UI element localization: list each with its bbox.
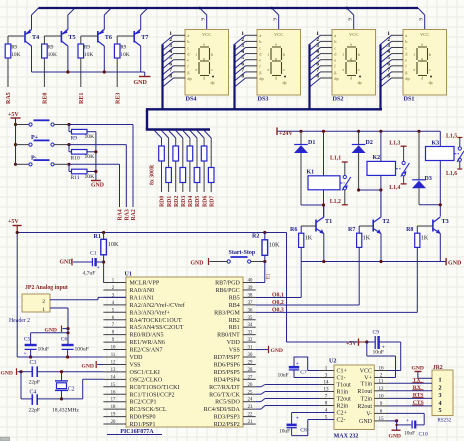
svg-text:8: 8 [325,401,328,407]
svg-text:R2in: R2in [337,404,349,410]
svg-text:18: 18 [111,405,116,410]
svg-text:dp: dp [211,80,215,85]
svg-text:18,432MHz: 18,432MHz [52,408,79,414]
svg-text:R10: R10 [71,155,81,161]
svg-text:c: c [358,67,360,72]
svg-text:39: 39 [248,286,253,291]
svg-text:3: 3 [241,43,244,49]
svg-text:L1,1: L1,1 [330,156,341,162]
svg-text:R9: R9 [71,135,78,141]
svg-text:e: e [259,58,261,63]
svg-text:e: e [196,67,198,72]
svg-text:22pF: 22pF [29,408,41,414]
svg-text:13: 13 [323,387,329,393]
svg-text:10K: 10K [85,174,95,180]
svg-text:1K: 1K [305,236,313,242]
svg-text:GND: GND [134,80,148,86]
svg-text:VDD: VDD [227,340,241,346]
svg-text:O0,1: O0,1 [272,293,284,299]
svg-text:5: 5 [387,55,390,61]
svg-text:10K: 10K [85,154,95,160]
svg-text:31: 31 [248,346,253,351]
svg-text:R2out: R2out [357,404,372,410]
svg-text:MCLR/VPP: MCLR/VPP [130,281,160,287]
svg-text:RD6: RD6 [202,196,208,207]
svg-text:R9: R9 [11,46,17,51]
svg-text:GND: GND [359,419,373,425]
svg-text:VCC: VCC [360,369,372,375]
svg-text:+5V: +5V [8,219,19,225]
svg-text:VSS: VSS [130,362,141,368]
svg-text:e: e [187,58,189,63]
svg-text:RA5: RA5 [6,92,12,104]
svg-text:P-: P- [31,156,37,162]
svg-text:RC2/CCP1: RC2/CCP1 [130,400,157,406]
svg-text:T1in: T1in [361,381,372,387]
svg-text:U1: U1 [125,272,132,278]
svg-text:DS3: DS3 [258,96,269,103]
svg-text:C7: C7 [300,369,307,375]
svg-text:100uF: 100uF [75,347,89,353]
svg-text:10K: 10K [120,52,129,58]
svg-text:3: 3 [316,43,319,49]
svg-text:RD1: RD1 [167,196,173,207]
svg-text:+: + [296,362,299,367]
svg-text:RC1/T1OSI/CCP2: RC1/T1OSI/CCP2 [130,392,175,398]
svg-text:14: 14 [323,380,329,386]
svg-text:RE2/CS/AN7: RE2/CS/AN7 [130,348,163,354]
svg-text:10uF: 10uF [278,373,289,379]
svg-text:g: g [350,56,352,61]
svg-text:1: 1 [387,31,390,37]
svg-text:+5V: +5V [8,112,19,118]
svg-text:10K: 10K [85,134,95,140]
svg-text:14: 14 [111,375,116,380]
svg-text:T2out: T2out [337,397,352,403]
svg-text:2: 2 [387,37,390,43]
svg-text:C10: C10 [419,432,429,438]
svg-text:GND: GND [1,370,13,376]
svg-text:e: e [414,67,416,72]
svg-text:7: 7 [241,67,244,73]
svg-text:40: 40 [248,279,253,284]
svg-text:RD6/PSP6: RD6/PSP6 [214,362,240,368]
svg-text:dp: dp [283,80,287,85]
svg-text:DS4: DS4 [186,96,197,103]
svg-text:32: 32 [248,338,253,343]
svg-text:RE1/WR/AN6: RE1/WR/AN6 [130,340,165,346]
svg-text:R2: R2 [252,234,259,240]
svg-text:7: 7 [316,67,319,73]
svg-text:VCC: VCC [274,32,283,37]
svg-text:RA4: RA4 [118,209,124,220]
svg-text:RB5: RB5 [229,295,240,301]
svg-text:2: 2 [42,299,45,305]
svg-text:T3: T3 [442,218,449,225]
svg-text:T5: T5 [68,34,75,41]
svg-text:b: b [283,52,285,57]
svg-text:16: 16 [378,366,384,372]
svg-text:E1: E1 [267,273,272,279]
svg-text:7: 7 [169,67,172,73]
svg-text:T1out: T1out [337,383,352,389]
svg-text:e: e [268,67,270,72]
svg-text:10K: 10K [48,52,57,58]
svg-text:28: 28 [248,368,253,373]
svg-text:RB0/INT: RB0/INT [217,333,240,339]
svg-text:C5: C5 [24,337,31,343]
svg-text:25: 25 [248,390,253,395]
svg-text:C2: C2 [68,387,75,393]
svg-text:C2-: C2- [337,418,346,424]
svg-text:R11: R11 [71,175,80,181]
svg-text:8: 8 [169,74,172,80]
svg-text:15: 15 [378,416,384,422]
svg-text:V-: V- [366,411,372,417]
svg-text:a: a [275,42,277,47]
svg-text:+24V: +24V [279,131,293,137]
svg-text:C1+: C1+ [337,369,348,375]
svg-text:37: 37 [248,301,253,306]
svg-text:10: 10 [378,393,384,399]
svg-text:R1out: R1out [357,389,372,395]
svg-text:d: d [350,76,352,81]
svg-text:DS1: DS1 [404,96,415,103]
svg-text:g: g [421,56,423,61]
svg-text:4: 4 [169,49,172,55]
svg-text:DS2: DS2 [333,96,344,103]
svg-text:24: 24 [248,398,253,403]
svg-text:RC6/TX/CK: RC6/TX/CK [209,392,240,398]
svg-text:3: 3 [325,373,328,379]
svg-text:8x 300R: 8x 300R [150,164,156,185]
svg-text:VDD: VDD [130,355,144,361]
svg-text:RB2: RB2 [229,318,240,324]
svg-text:35: 35 [248,316,253,321]
svg-text:D3: D3 [425,176,432,182]
svg-text:T2in: T2in [361,396,372,402]
svg-text:6: 6 [387,61,390,67]
svg-text:RD1/PSP1: RD1/PSP1 [130,422,156,428]
svg-text:RA3/AN3/Vref+: RA3/AN3/Vref+ [130,309,171,316]
svg-text:1K: 1K [421,236,429,242]
svg-text:C9: C9 [373,330,380,336]
svg-text:RD0/PSP0: RD0/PSP0 [130,415,156,421]
svg-text:OSC2/CLKO: OSC2/CLKO [130,377,163,383]
svg-text:JP2 Analog input: JP2 Analog input [25,285,68,291]
svg-text:19: 19 [111,413,116,418]
svg-text:b: b [211,52,213,57]
svg-text:17: 17 [111,398,116,403]
svg-text:+5V: +5V [346,341,357,347]
svg-text:RA3: RA3 [125,209,131,220]
svg-text:RB6/PGC: RB6/PGC [215,288,239,294]
svg-text:RD3/PSP3: RD3/PSP3 [214,415,240,421]
svg-text:c: c [405,45,407,50]
svg-text:RD0: RD0 [160,196,166,207]
svg-text:d: d [421,76,423,81]
svg-text:d: d [203,76,205,81]
svg-text:36: 36 [248,308,253,313]
svg-text:c: c [429,67,431,72]
svg-text:R6: R6 [290,227,297,233]
svg-text:4: 4 [241,49,244,55]
svg-text:1: 1 [325,366,328,372]
svg-text:a: a [421,42,423,47]
svg-text:+: + [97,266,100,271]
svg-text:RB3/PGM: RB3/PGM [214,310,240,316]
svg-text:RC7/RX/DT: RC7/RX/DT [209,385,240,391]
svg-text:RD7/PSP7: RD7/PSP7 [214,355,240,361]
svg-text:RA4/TOCKI/C1OUT: RA4/TOCKI/C1OUT [130,318,183,324]
svg-text:VCC: VCC [202,32,211,37]
svg-text:12: 12 [378,386,384,392]
svg-text:RD3: RD3 [181,196,187,207]
svg-text:GND: GND [448,260,462,266]
svg-text:RD2/PSP2: RD2/PSP2 [214,422,240,428]
svg-text:+: + [296,416,299,421]
svg-text:5: 5 [316,55,319,61]
svg-text:O0,2: O0,2 [272,300,284,306]
svg-text:6: 6 [169,61,172,67]
svg-text:RD2: RD2 [174,196,180,207]
svg-text:+: + [406,418,409,424]
svg-text:c: c [334,45,336,50]
svg-text:10K: 10K [108,241,119,248]
svg-text:a: a [187,33,189,38]
svg-text:D1: D1 [308,140,315,146]
svg-text:e: e [334,58,336,63]
svg-text:VCC: VCC [349,32,358,37]
svg-text:3: 3 [438,392,441,399]
svg-text:26: 26 [248,383,253,388]
svg-text:GND: GND [82,363,94,369]
svg-text:RC3/SCK/SCL: RC3/SCK/SCL [130,407,167,413]
svg-text:RA1/AN1: RA1/AN1 [130,295,155,301]
svg-text:GND: GND [91,183,104,189]
svg-text:K3: K3 [432,141,440,147]
svg-text:23: 23 [248,405,253,410]
svg-text:GND: GND [412,365,424,371]
svg-text:4,7uF: 4,7uF [83,271,96,277]
svg-text:a: a [334,33,336,38]
svg-text:1: 1 [316,31,319,37]
svg-text:a: a [350,42,352,47]
svg-text:K1: K1 [307,170,315,176]
svg-text:L1,6: L1,6 [446,171,457,177]
svg-text:15: 15 [111,383,116,388]
svg-text:R7: R7 [348,227,355,233]
svg-text:D2: D2 [366,140,373,146]
svg-text:R1in: R1in [337,390,349,396]
svg-text:22pF: 22pF [29,380,41,386]
svg-text:11: 11 [111,353,116,358]
svg-text:10uF: 10uF [404,431,415,437]
svg-text:T1: T1 [325,218,332,225]
svg-text:dp: dp [358,80,362,85]
svg-text:GND: GND [389,434,401,440]
svg-text:5: 5 [169,55,172,61]
svg-text:29: 29 [248,360,253,365]
svg-text:5: 5 [438,407,441,414]
svg-text:11: 11 [379,378,384,384]
svg-text:GND: GND [60,259,73,265]
svg-text:5: 5 [241,55,244,61]
svg-text:b: b [429,52,431,57]
svg-text:1K: 1K [363,236,371,242]
svg-text:RE3: RE3 [115,93,121,104]
svg-text:8: 8 [241,74,244,80]
svg-text:10: 10 [111,346,116,351]
svg-text:RB7/PGD: RB7/PGD [215,281,240,287]
svg-text:MAX 232: MAX 232 [334,433,359,439]
svg-text:RE0/RD/AN5: RE0/RD/AN5 [130,333,164,339]
svg-text:U2: U2 [329,359,336,365]
svg-text:a: a [405,33,407,38]
svg-text:RA2/AN2/Vref-/CVref: RA2/AN2/Vref-/CVref [130,302,185,309]
svg-text:RA2: RA2 [131,209,137,220]
svg-text:C6: C6 [61,337,68,343]
svg-text:RA0/AN0: RA0/AN0 [130,288,155,294]
svg-text:R9: R9 [84,46,90,51]
svg-text:RD7: RD7 [209,196,215,207]
svg-text:RD4/PSP4: RD4/PSP4 [214,377,240,383]
svg-text:8: 8 [387,74,390,80]
svg-text:4: 4 [438,400,441,407]
svg-text:3: 3 [169,43,172,49]
svg-text:C1: C1 [90,251,97,257]
svg-text:3: 3 [387,43,390,49]
svg-text:VSS: VSS [229,348,240,354]
svg-text:2: 2 [438,384,441,391]
svg-text:R8: R8 [406,227,413,233]
svg-text:16: 16 [111,390,116,395]
svg-text:Start-Stop: Start-Stop [229,250,256,256]
svg-text:1: 1 [42,307,45,313]
svg-text:20: 20 [111,420,116,425]
svg-text:c: c [187,45,189,50]
svg-text:1: 1 [169,31,172,37]
svg-text:T2: T2 [382,218,389,225]
svg-text:O0,3: O0,3 [272,307,284,313]
svg-text:c: c [259,45,261,50]
svg-text:C3: C3 [30,360,37,366]
svg-text:P+: P+ [31,135,39,141]
svg-text:e: e [405,58,407,63]
svg-text:12: 12 [111,360,116,365]
svg-text:4: 4 [316,49,319,55]
svg-text:RA5/AN4/SS/C2OUT: RA5/AN4/SS/C2OUT [130,325,184,331]
svg-text:33: 33 [248,331,253,336]
svg-text:8: 8 [316,74,319,80]
svg-text:a: a [259,33,261,38]
svg-text:+: + [24,351,27,357]
svg-text:GND: GND [191,260,204,266]
svg-text:RE0: RE0 [43,93,49,104]
svg-text:L1,3: L1,3 [389,141,400,147]
svg-text:VCC: VCC [420,32,429,37]
svg-text:C8: C8 [300,427,307,433]
svg-text:1: 1 [438,377,441,384]
svg-text:RB1: RB1 [229,325,240,331]
svg-text:OSC1/CLKI: OSC1/CLKI [130,370,160,376]
svg-text:2: 2 [169,37,172,43]
svg-text:10K: 10K [11,52,20,58]
svg-text:6: 6 [316,61,319,67]
svg-text:a: a [203,42,205,47]
svg-text:C1-: C1- [337,376,346,382]
svg-text:2: 2 [316,37,319,43]
svg-text:38: 38 [248,293,253,298]
svg-text:T6: T6 [105,34,112,41]
svg-text:6: 6 [380,408,383,414]
svg-text:RD5/PSP5: RD5/PSP5 [214,370,240,376]
svg-text:RC5/SDO: RC5/SDO [215,400,240,406]
svg-text:R9: R9 [120,46,126,51]
svg-text:RC4/SDI/SDA: RC4/SDI/SDA [204,407,241,413]
svg-text:R1: R1 [94,234,101,240]
svg-text:GND: GND [271,348,283,354]
svg-text:T7: T7 [141,34,148,41]
svg-text:2: 2 [241,37,244,43]
svg-text:dp: dp [429,80,433,85]
svg-text:JR2: JR2 [433,365,443,371]
svg-text:13: 13 [111,368,116,373]
svg-text:22: 22 [248,413,253,418]
svg-text:21: 21 [248,420,253,425]
svg-text:RS232: RS232 [438,418,452,423]
svg-text:30: 30 [248,353,253,358]
svg-text:RD5: RD5 [195,196,201,207]
svg-text:34: 34 [248,323,253,328]
svg-text:7: 7 [387,67,390,73]
svg-text:c: c [211,67,213,72]
svg-text:27: 27 [248,375,253,380]
svg-text:10K: 10K [269,242,280,249]
svg-text:b: b [358,52,360,57]
svg-text:R9: R9 [48,46,54,51]
svg-text:10K: 10K [84,52,93,58]
svg-text:e: e [343,67,345,72]
svg-text:10uF: 10uF [38,347,50,353]
svg-text:RD4: RD4 [188,196,194,207]
svg-text:C2+: C2+ [337,411,348,417]
svg-text:4: 4 [387,49,390,55]
svg-text:T4: T4 [32,34,39,41]
svg-text:L1,2: L1,2 [330,199,341,205]
svg-text:10uF: 10uF [373,350,385,356]
svg-text:K2: K2 [373,155,381,161]
svg-text:10uF: 10uF [279,429,290,435]
svg-text:g: g [275,56,277,61]
svg-text:g: g [203,56,205,61]
svg-text:7: 7 [325,394,328,400]
svg-text:Header 2: Header 2 [9,318,30,324]
svg-text:RC0/T1OSO/T1CKI: RC0/T1OSO/T1CKI [130,385,180,391]
svg-text:9: 9 [380,401,383,407]
svg-text:L1,4: L1,4 [389,185,400,191]
svg-text:1: 1 [241,31,244,37]
svg-text:6: 6 [241,61,244,67]
svg-text:d: d [275,76,277,81]
svg-text:RB4: RB4 [229,303,240,309]
svg-text:L1,5: L1,5 [446,133,457,139]
svg-text:c: c [283,67,285,72]
svg-text:RE1: RE1 [79,93,85,104]
